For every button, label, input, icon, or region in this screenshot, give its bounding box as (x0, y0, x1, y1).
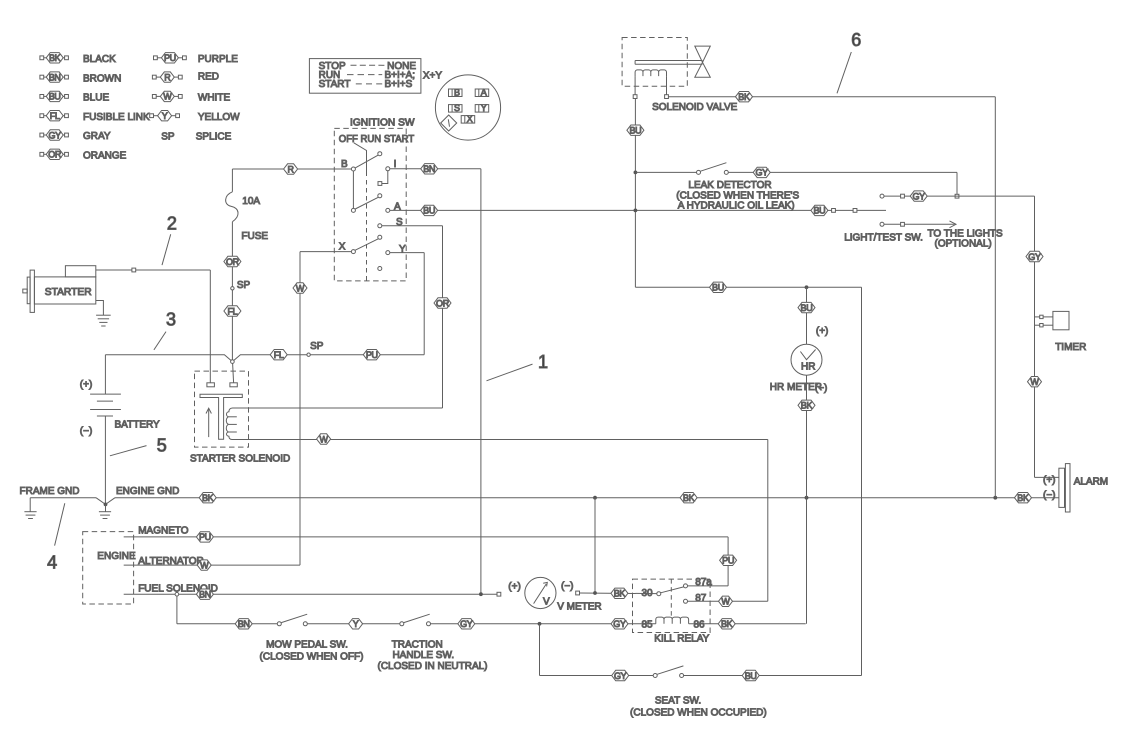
terminal A label (394, 201, 401, 212)
svg-text:BU: BU (801, 303, 813, 313)
contact bottom (378, 267, 382, 271)
wire BN fuel solenoid (124, 592, 501, 596)
alarm label (1074, 477, 1108, 488)
svg-text:R: R (287, 164, 294, 174)
wire tag FL (270, 350, 287, 361)
svg-text:WHITE: WHITE (198, 93, 231, 104)
svg-text:YELLOW: YELLOW (198, 112, 240, 123)
junction V meter minus column (593, 498, 597, 595)
solenoid valve body (bowtie) (695, 46, 711, 77)
seat switch label (630, 695, 767, 718)
fuel solenoid label (138, 584, 218, 595)
traction handle switch (400, 614, 431, 626)
svg-text:FL: FL (274, 350, 284, 360)
svg-text:85: 85 (642, 619, 654, 630)
junction HR meter (805, 285, 809, 289)
V meter (525, 577, 556, 608)
wire from terminal Y down to fusible link row (390, 253, 424, 355)
wire tag GY (seat switch) (612, 670, 629, 681)
splice SP (fuse column) (231, 280, 251, 291)
svg-text:(−): (−) (80, 426, 93, 437)
svg-text:BU: BU (813, 206, 825, 216)
svg-text:BLUE: BLUE (83, 93, 109, 104)
wire starter to solenoid (96, 268, 211, 383)
svg-text:(+): (+) (508, 582, 521, 593)
svg-text:Y: Y (481, 103, 487, 113)
svg-text:X: X (339, 242, 346, 253)
legend label YELLOW (198, 112, 240, 123)
connector pin A (475, 88, 489, 98)
wire tag BU (light/test) (811, 205, 828, 216)
legend tag W (152, 91, 182, 102)
legend tag Y (150, 111, 180, 122)
svg-text:I: I (394, 159, 397, 170)
svg-text:BK: BK (721, 619, 733, 629)
svg-text:ORANGE: ORANGE (83, 151, 127, 162)
wire tag GY (leak detector) (753, 167, 770, 178)
kill relay label (654, 633, 709, 644)
legend tag OR (40, 149, 69, 160)
svg-text:BK: BK (49, 53, 61, 63)
svg-text:(CLOSED IN NEUTRAL): (CLOSED IN NEUTRAL) (377, 661, 487, 672)
leak detector label (676, 180, 799, 211)
terminal B label (341, 159, 348, 170)
wire tag BN (421, 164, 438, 175)
wire tag PU (magneto) (196, 532, 213, 543)
kill relay terminal 30 label (642, 588, 654, 599)
solenoid valve label (652, 102, 738, 113)
terminal X label (339, 242, 346, 253)
svg-text:Y: Y (399, 244, 406, 255)
svg-text:STARTER SOLENOID: STARTER SOLENOID (190, 454, 290, 465)
timer box (1043, 311, 1069, 329)
contact S (378, 224, 382, 228)
connector pin B (449, 88, 463, 98)
kill relay 87a label (695, 577, 712, 588)
svg-text:86: 86 (694, 619, 706, 630)
starter ground (96, 301, 111, 327)
svg-text:SP: SP (310, 341, 324, 352)
starter solenoid coil (226, 408, 237, 440)
legend tag R (152, 72, 182, 83)
legend label PURPLE (198, 54, 238, 65)
OFF position pointer (354, 143, 367, 281)
terminal I label (394, 159, 397, 170)
terminal I elbow to contact (378, 171, 388, 186)
wire BK V meter to kill relay 30 (576, 591, 657, 595)
wire OR: terminal S to starter solenoid coil (233, 226, 443, 408)
wire fuse to junction (231, 222, 233, 360)
svg-text:BK: BK (801, 401, 813, 411)
light/test connector squares (832, 209, 857, 213)
solenoid valve terminals (633, 76, 668, 98)
svg-text:BU: BU (745, 671, 757, 681)
wire tag BU (HR meter) (798, 302, 815, 313)
wire tag BK (solenoid valve) (736, 92, 753, 103)
svg-text:FRAME GND: FRAME GND (20, 486, 80, 497)
kill relay 85 label (642, 619, 654, 630)
wire tag BU (421, 205, 438, 216)
svg-text:BN: BN (49, 72, 61, 82)
svg-text:BATTERY: BATTERY (115, 419, 161, 430)
engine ground junction (99, 503, 111, 519)
wire tag FL (fuse column) (224, 306, 241, 317)
HR meter minus label (815, 383, 828, 394)
wire battery plus to fusible link junction (105, 355, 232, 362)
engine dashed box (83, 532, 134, 604)
wire BK ground row (106, 498, 1059, 505)
alarm minus label (1043, 490, 1056, 501)
kill relay 86 label (694, 619, 706, 630)
wire PU magneto to kill relay 87a (124, 537, 728, 586)
wire GY timer column (1035, 196, 1059, 477)
wire tag Y (349, 619, 363, 630)
svg-text:OFF RUN START: OFF RUN START (339, 134, 414, 145)
terminal A (386, 208, 390, 212)
legend label BLACK (83, 54, 116, 65)
wire leak detector (635, 171, 696, 173)
wire BU down to HR meter (806, 287, 808, 344)
svg-text:3: 3 (166, 309, 176, 329)
svg-text:SP: SP (161, 132, 175, 143)
legend label GRAY (83, 131, 111, 142)
svg-text:V: V (543, 597, 550, 608)
battery (90, 355, 121, 504)
connector pin Y (475, 103, 489, 113)
svg-text:OR: OR (436, 298, 450, 308)
svg-text:(+): (+) (80, 379, 93, 390)
svg-text:STARTER: STARTER (45, 287, 92, 298)
svg-text:W: W (200, 560, 209, 570)
alarm plus label (1043, 475, 1056, 486)
HR meter (791, 344, 822, 375)
svg-text:10A: 10A (242, 196, 260, 207)
svg-text:W: W (296, 283, 305, 293)
svg-text:(+): (+) (1043, 475, 1056, 486)
svg-text:GY: GY (48, 130, 61, 140)
svg-text:BK: BK (202, 493, 214, 503)
kill relay dashed box (633, 579, 711, 632)
fuse label 10A (242, 196, 260, 207)
table row STOP = NONE (319, 61, 417, 72)
wire tag BN (fuel solenoid) (196, 589, 213, 600)
switch pole 3 (X) (351, 235, 381, 253)
leak detector switch (697, 163, 729, 175)
junction solenoid valve BK (993, 496, 997, 500)
wire tag GY (kill relay 85) (611, 619, 628, 630)
wire tag OR (fuse column) (224, 256, 241, 267)
wire tag BK (HR meter) (798, 400, 815, 411)
connector pin I (diamond) (441, 115, 457, 131)
starter solenoid terminal right (230, 363, 237, 387)
svg-text:BN: BN (238, 619, 250, 629)
wire W alternator (124, 564, 300, 566)
callout 6 (837, 30, 861, 93)
splice SP (307, 341, 324, 356)
V meter plus label (508, 582, 521, 593)
wire tag PU (kill relay 87a) (720, 555, 737, 566)
connector pin S (449, 103, 463, 113)
legend label BROWN (83, 73, 121, 84)
engine ground label (116, 486, 179, 497)
traction handle switch label (377, 639, 487, 672)
wire GY to timer column (880, 194, 1035, 198)
ignition switch dashed box (334, 128, 406, 281)
ignition switch label (350, 117, 415, 128)
svg-text:TIMER: TIMER (1055, 342, 1086, 353)
starter solenoid terminal left (207, 383, 215, 387)
svg-text:HANDLE SW.: HANDLE SW. (392, 650, 454, 661)
V meter minus label (561, 581, 574, 592)
svg-text:B: B (341, 159, 348, 170)
svg-text:BLACK: BLACK (83, 54, 116, 65)
to the lights label (928, 229, 1004, 250)
wire tag GY (traction) (458, 619, 475, 630)
wire tag W (starter solenoid) (317, 434, 331, 445)
svg-text:X: X (467, 114, 473, 124)
svg-text:30: 30 (642, 588, 654, 599)
wire tag PU (363, 350, 380, 361)
svg-text:PU: PU (164, 53, 176, 63)
svg-text:MOW PEDAL SW.: MOW PEDAL SW. (266, 639, 348, 650)
svg-text:RED: RED (198, 71, 219, 82)
svg-text:LIGHT/TEST SW.: LIGHT/TEST SW. (844, 232, 923, 243)
legend tag BU (40, 91, 69, 102)
svg-text:BU: BU (629, 126, 641, 136)
frame ground label (20, 486, 80, 497)
svg-text:SPLICE: SPLICE (196, 132, 232, 143)
svg-text:GY: GY (755, 168, 768, 178)
legend label BLUE (83, 93, 109, 104)
engine label (97, 551, 136, 562)
svg-text:BU: BU (49, 92, 61, 102)
connector pin X (461, 114, 475, 124)
svg-text:BK: BK (614, 589, 626, 599)
starter solenoid plunger (200, 394, 242, 439)
kill relay 87 label (695, 593, 707, 604)
wire BN branch to mow pedal switch (177, 596, 277, 624)
wire GY leak detector (728, 172, 959, 198)
svg-text:FUSE: FUSE (241, 231, 268, 242)
legend tag FL (40, 111, 69, 122)
svg-text:OR: OR (48, 150, 62, 160)
svg-text:GY: GY (912, 191, 925, 201)
wire tag W (alarm) (1028, 377, 1042, 388)
junction HR meter BK (805, 496, 809, 500)
svg-text:HR: HR (801, 361, 815, 372)
mow pedal switch label (260, 639, 364, 662)
solenoid valve stem (635, 61, 702, 65)
svg-text:ALARM: ALARM (1074, 477, 1108, 488)
svg-text:6: 6 (851, 30, 861, 50)
svg-text:BN: BN (199, 590, 211, 600)
light/test switch to the lights (880, 221, 956, 228)
wire tag BU (HR meter row) (710, 282, 727, 293)
callout 4 (47, 503, 65, 572)
table row RUN = B+I+A; X+Y (319, 70, 443, 82)
svg-text:(CLOSED WHEN OCCUPIED): (CLOSED WHEN OCCUPIED) (630, 708, 767, 719)
legend tag GY (40, 130, 69, 141)
svg-text:SP: SP (237, 280, 251, 291)
seat switch (653, 666, 683, 678)
svg-text:PU: PU (366, 350, 378, 360)
svg-text:(−): (−) (561, 581, 574, 592)
svg-text:1: 1 (538, 352, 548, 372)
svg-text:PURPLE: PURPLE (198, 54, 238, 65)
svg-text:ENGINE: ENGINE (97, 551, 136, 562)
frame ground (24, 498, 105, 519)
wire tag BK (V meter) (611, 588, 628, 599)
fuse 10A (226, 192, 238, 222)
svg-text:S: S (454, 103, 460, 113)
starter label (45, 287, 92, 298)
HR meter label (770, 382, 822, 393)
svg-text:BN: BN (423, 164, 435, 174)
svg-text:B: B (454, 88, 460, 98)
svg-text:OR: OR (226, 257, 240, 267)
svg-text:SOLENOID VALVE: SOLENOID VALVE (652, 102, 738, 113)
wire BU: terminal A right to leak detector column (390, 209, 886, 211)
svg-text:PU: PU (199, 532, 211, 542)
terminal Y (386, 251, 390, 255)
wire W: terminal X down to alternator (300, 252, 351, 565)
wire W from starter solenoid to kill relay (233, 440, 768, 602)
svg-text:W: W (721, 597, 730, 607)
wire tag BU (seat switch) (742, 670, 759, 681)
svg-text:BK: BK (1017, 493, 1029, 503)
legend tag BN (40, 72, 69, 83)
svg-text:(OPTIONAL): (OPTIONAL) (935, 239, 992, 250)
wire W from 87 (688, 600, 768, 602)
alternator label (138, 556, 204, 567)
timer stubs (1035, 315, 1044, 327)
wire tag W (alternator) (197, 560, 211, 571)
wire BK from HR meter down (806, 375, 808, 624)
fuse label FUSE (241, 231, 268, 242)
wire BK from 86 to HR meter column (689, 623, 806, 625)
legend label SP SPLICE (161, 132, 231, 143)
HR meter plus label (816, 326, 829, 337)
svg-text:GY: GY (1028, 252, 1041, 262)
wire BU solenoid valve column (634, 99, 636, 288)
svg-text:5: 5 (157, 436, 167, 456)
junction GY seat switch branch (538, 622, 542, 626)
svg-text:FL: FL (50, 111, 60, 121)
svg-text:IGNITION SW: IGNITION SW (350, 117, 415, 128)
wire tag OR (434, 298, 451, 309)
wire BU seat switch to HR meter row (684, 287, 862, 675)
light/test switch label (844, 232, 923, 243)
wire BN: terminal I right and down to fuel solenoid row (390, 169, 481, 594)
wire B to pole 2 (352, 171, 354, 208)
svg-text:GY: GY (614, 671, 627, 681)
wire BU row to HR meter (635, 286, 861, 288)
wire fuse top (231, 169, 233, 192)
wire GY traction to kill relay (431, 623, 656, 625)
battery minus label (80, 426, 93, 437)
switch pole 2 (351, 194, 381, 213)
svg-text:GY: GY (460, 619, 473, 629)
ignition position table box (309, 59, 421, 94)
svg-text:SEAT SW.: SEAT SW. (655, 695, 701, 706)
legend label RED (198, 71, 219, 82)
svg-text:Y: Y (353, 619, 359, 629)
svg-text:START: START (319, 79, 351, 90)
callout 3 (154, 309, 176, 350)
wire R: fuse to terminal B (232, 168, 351, 170)
svg-text:FUSIBLE LINK: FUSIBLE LINK (83, 112, 150, 123)
wire tag BK (kill relay 86) (718, 619, 735, 630)
svg-text:BK: BK (738, 92, 750, 102)
junction leak detector (634, 171, 638, 175)
svg-text:(−): (−) (815, 383, 828, 394)
callout 2 (162, 213, 177, 265)
svg-text:ENGINE GND: ENGINE GND (116, 486, 179, 497)
legend label FUSIBLE LINK (83, 112, 150, 123)
wire GY to seat switch (540, 624, 654, 676)
mow pedal switch (277, 614, 307, 626)
svg-text:87a: 87a (695, 577, 712, 588)
svg-text:PU: PU (722, 556, 734, 566)
starter solenoid dashed box (195, 371, 249, 447)
wire tag BK (kill relay row) (680, 493, 697, 504)
terminal I (386, 167, 390, 171)
svg-text:A: A (481, 88, 487, 98)
wire Y mow pedal to traction (307, 623, 400, 625)
svg-text:V METER: V METER (557, 602, 601, 613)
ignition switch connector circle (435, 75, 500, 140)
svg-text:TRACTION: TRACTION (392, 639, 443, 650)
wire tag BK (alarm) (1015, 493, 1032, 504)
solenoid valve coil (635, 70, 666, 76)
svg-text:MAGNETO: MAGNETO (138, 526, 189, 537)
svg-text:FL: FL (227, 306, 237, 316)
starter solenoid arrow (206, 408, 211, 437)
svg-text:2: 2 (167, 213, 177, 233)
starter motor (23, 266, 96, 313)
svg-text:87: 87 (695, 593, 707, 604)
kill relay coil (656, 617, 689, 624)
svg-text:4: 4 (47, 553, 57, 573)
wire tag GY (to timer) (910, 191, 927, 202)
svg-text:(+): (+) (816, 326, 829, 337)
svg-text:W: W (1030, 377, 1039, 387)
svg-text:Y: Y (162, 111, 168, 121)
svg-text:X+Y: X+Y (423, 71, 443, 82)
wire tag W (kill relay 87) (719, 596, 733, 607)
battery label (115, 419, 161, 430)
svg-text:BK: BK (683, 493, 695, 503)
legend label ORANGE (83, 151, 127, 162)
svg-text:(−): (−) (1043, 490, 1056, 501)
legend tag BK (40, 53, 69, 64)
junction fusible link (231, 360, 235, 364)
junction BN column (479, 592, 483, 596)
svg-text:GRAY: GRAY (83, 131, 111, 142)
svg-text:LEAK DETECTOR: LEAK DETECTOR (688, 180, 771, 191)
solenoid valve dashed box (622, 38, 687, 87)
wire tag BU (solenoid valve) (627, 125, 644, 136)
junction fuel solenoid branch (175, 592, 179, 596)
svg-text:(CLOSED WHEN OFF): (CLOSED WHEN OFF) (260, 652, 364, 663)
callout 1 (487, 352, 549, 381)
svg-text:R: R (164, 72, 171, 82)
svg-text:BU: BU (423, 206, 435, 216)
switch pole 1 (B) (351, 152, 381, 171)
table row START = B+I+S (319, 79, 413, 90)
V meter label (557, 602, 601, 613)
svg-text:B+I+S: B+I+S (385, 79, 413, 90)
